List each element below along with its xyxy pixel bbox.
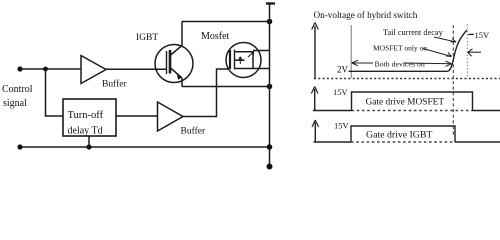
svg-text:Gate drive MOSFET: Gate drive MOSFET: [366, 98, 445, 108]
svg-text:15V: 15V: [334, 121, 350, 131]
trace: IGBT gate pulse: [351, 126, 455, 142]
delay box Td: [63, 99, 116, 136]
guide line: turn-on instant: [350, 25, 352, 78]
axis: top Y axis: [314, 26, 316, 78]
svg-text:IGBT: IGBT: [136, 33, 158, 43]
axis: middle Y axis: [314, 89, 316, 111]
axis: bottom Y axis: [314, 123, 316, 143]
wire MOSFET drain: [253, 50, 270, 52]
wire delay box input: [46, 69, 64, 116]
trace: on-voltage 2V level: [349, 70, 448, 72]
node: control input terminal: [17, 66, 22, 71]
trace: MOSFET gate zero level during pulse (dashed): [352, 110, 473, 112]
wire delay box output: [116, 115, 158, 117]
trace: IGBT gate baseline (solid-left): [314, 141, 352, 143]
svg-text:signal: signal: [3, 98, 27, 109]
svg-text:Control: Control: [2, 84, 33, 95]
node: junction emitter bus / rail: [267, 84, 273, 90]
trace: on-voltage turn-off rise with tail: [448, 30, 468, 71]
trace: MOSFET gate pulse: [352, 92, 473, 111]
trace: MOSFET gate baseline (solid-left): [313, 110, 352, 112]
svg-text:2V: 2V: [337, 65, 349, 75]
svg-text:Both devices on: Both devices on: [375, 60, 425, 69]
svg-text:delay Td: delay Td: [68, 126, 103, 137]
trace: MOSFET gate baseline (solid-right): [473, 110, 500, 112]
node: bottom terminal of rail: [267, 164, 273, 170]
svg-text:15V: 15V: [333, 87, 349, 97]
node: junction control/delay branch: [43, 67, 48, 72]
arrow: both-devices span (double headed): [352, 60, 452, 66]
svg-text:Tail current decay: Tail current decay: [383, 28, 444, 37]
trace: IGBT gate zero level during pulse (dashed): [351, 141, 455, 143]
wire IGBT emitter: [181, 78, 183, 87]
wire buffer U2 output to MOSFET gate: [183, 69, 230, 117]
wire MOSFET source: [253, 68, 270, 70]
tick 15V level: [468, 33, 474, 35]
svg-text:Turn-off: Turn-off: [68, 110, 104, 121]
wire delay box to bottom bus: [88, 136, 90, 147]
transistor Q1 IGBT: [155, 45, 193, 83]
svg-text:MOSFET only on: MOSFET only on: [373, 44, 427, 53]
svg-text:Buffer: Buffer: [102, 79, 127, 90]
svg-text:Mosfet: Mosfet: [201, 31, 230, 42]
guide line: MOSFET turn-off (dotted): [466, 24, 468, 78]
trace: IGBT gate baseline (solid-right): [455, 141, 500, 143]
node: bottom-left terminal: [17, 144, 22, 149]
svg-text:15V: 15V: [475, 30, 491, 40]
wire bottom return bus: [20, 146, 270, 148]
arrow: tail decay callout: [434, 37, 456, 42]
node: junction delay box / bottom bus: [86, 144, 91, 149]
wire control signal input: [20, 68, 81, 70]
buffer U2: [158, 102, 184, 131]
terminal top: [266, 2, 275, 4]
arrow: MOSFET-only callout: [423, 49, 452, 57]
svg-text:Gate drive IGBT: Gate drive IGBT: [366, 130, 432, 141]
buffer U1: [81, 56, 106, 84]
svg-text:On-voltage of hybrid switch: On-voltage of hybrid switch: [314, 10, 418, 20]
guide line: IGBT turn-off (dashed): [452, 25, 454, 136]
node: junction bottom bus / rail: [267, 144, 273, 150]
arrow: left pointer to MOSFET-off instant: [468, 49, 481, 57]
wire buffer U1 output to IGBT gate: [106, 68, 167, 70]
svg-text:Buffer: Buffer: [181, 126, 206, 137]
transistor Q2 MOSFET: [226, 43, 261, 78]
wire collector top bus: [182, 21, 270, 23]
top zero baseline (dotted): [314, 78, 500, 80]
node: junction top bus / rail: [267, 19, 273, 25]
wire IGBT collector: [181, 22, 183, 46]
wire emitter bottom bus: [182, 86, 270, 88]
wire right rail: [269, 4, 271, 167]
